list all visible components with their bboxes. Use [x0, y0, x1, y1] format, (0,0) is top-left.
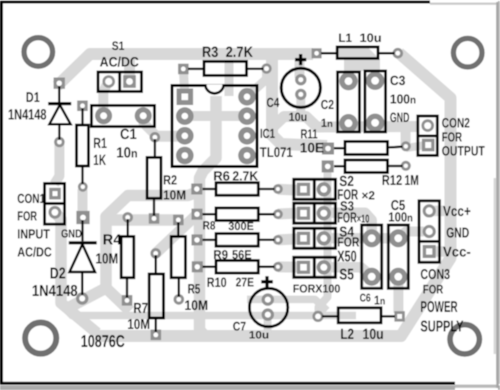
svg-text:10u: 10u	[363, 327, 384, 343]
svg-text:×10: ×10	[357, 214, 370, 226]
svg-text:10E: 10E	[300, 139, 324, 155]
svg-text:R8: R8	[203, 219, 216, 233]
svg-text:27E: 27E	[236, 275, 255, 290]
svg-text:GND: GND	[446, 226, 469, 242]
svg-text:Vcc+: Vcc+	[443, 204, 471, 220]
svg-text:R9: R9	[213, 247, 228, 262]
svg-text:R2: R2	[163, 172, 177, 187]
svg-text:R12: R12	[382, 173, 402, 189]
svg-text:Vcc-: Vcc-	[443, 244, 471, 260]
svg-text:100n: 100n	[388, 210, 412, 225]
svg-text:S1: S1	[112, 39, 125, 53]
svg-text:R6: R6	[213, 168, 230, 183]
svg-text:R7: R7	[133, 301, 148, 317]
svg-text:L2: L2	[340, 327, 354, 343]
svg-text:X50: X50	[337, 249, 357, 266]
svg-text:IC1: IC1	[260, 126, 275, 141]
svg-text:2.7K: 2.7K	[226, 44, 253, 61]
svg-text:R4: R4	[103, 233, 123, 249]
svg-text:1n: 1n	[321, 116, 333, 130]
svg-text:S5: S5	[339, 267, 354, 284]
svg-text:1N4148: 1N4148	[8, 108, 47, 124]
svg-text:D1: D1	[26, 89, 40, 105]
svg-text:FOR: FOR	[17, 209, 37, 224]
svg-text:D2: D2	[50, 265, 66, 282]
svg-text:300E: 300E	[228, 221, 254, 233]
svg-text:C6: C6	[360, 292, 371, 304]
svg-text:10u: 10u	[360, 31, 382, 45]
svg-text:R3: R3	[202, 44, 218, 61]
svg-text:SUPPLY: SUPPLY	[420, 318, 463, 335]
svg-text:2.7K: 2.7K	[232, 168, 258, 183]
svg-text:10M: 10M	[96, 252, 119, 268]
svg-text:10M: 10M	[163, 187, 186, 202]
svg-text:FOR: FOR	[337, 235, 359, 250]
svg-text:FOR: FOR	[423, 283, 443, 297]
svg-text:CON1: CON1	[17, 191, 45, 206]
svg-text:100n: 100n	[390, 92, 416, 107]
svg-text:FOR: FOR	[442, 129, 463, 144]
svg-text:GND: GND	[390, 110, 410, 125]
svg-text:1N4148: 1N4148	[32, 283, 78, 300]
svg-text:R1: R1	[93, 136, 107, 152]
svg-text:R5: R5	[188, 282, 201, 297]
svg-text:10M: 10M	[185, 297, 209, 313]
svg-text:CON2: CON2	[442, 115, 470, 130]
svg-text:L1: L1	[338, 31, 352, 45]
svg-text:TL071: TL071	[260, 144, 293, 160]
svg-text:1K: 1K	[93, 153, 106, 169]
svg-text:C2: C2	[321, 97, 334, 112]
svg-text:C7: C7	[233, 319, 246, 333]
svg-text:C1: C1	[120, 127, 137, 143]
svg-text:×2: ×2	[362, 188, 376, 202]
svg-text:FORX100: FORX100	[293, 284, 341, 296]
svg-text:1n: 1n	[374, 293, 385, 308]
svg-text:AC/DC: AC/DC	[17, 245, 52, 260]
svg-text:C3: C3	[390, 73, 406, 88]
svg-text:R10: R10	[207, 275, 227, 290]
svg-text:POWER: POWER	[420, 299, 457, 316]
svg-text:INPUT: INPUT	[17, 227, 50, 242]
svg-text:10n: 10n	[116, 145, 137, 161]
svg-text:10876C: 10876C	[81, 331, 125, 351]
svg-text:GND: GND	[61, 227, 82, 240]
svg-text:10u: 10u	[289, 110, 308, 124]
svg-text:1M: 1M	[405, 173, 419, 189]
svg-text:10M: 10M	[127, 317, 150, 333]
svg-text:56E: 56E	[232, 247, 252, 262]
svg-text:10u: 10u	[249, 329, 269, 341]
svg-text:AC/DC: AC/DC	[100, 54, 139, 69]
svg-text:OUTPUT: OUTPUT	[442, 143, 485, 158]
svg-text:CON3: CON3	[420, 267, 450, 283]
svg-text:C4: C4	[267, 95, 280, 110]
